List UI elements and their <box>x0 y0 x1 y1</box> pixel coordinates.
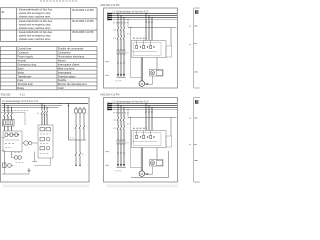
tall aux box <box>38 125 53 158</box>
text smudges <box>15 152 22 154</box>
wire bus L3 <box>2 107 59 109</box>
wire tap rail <box>1 112 25 114</box>
wire below starter <box>34 152 36 162</box>
starter left box <box>3 131 22 152</box>
sliver frame <box>194 98 200 183</box>
sliver power entry <box>195 10 198 14</box>
left drop continues <box>4 152 6 168</box>
ground symbol <box>28 168 31 173</box>
sliver marks <box>194 26 197 73</box>
svg-text:Control fuse: Control fuse <box>17 47 32 51</box>
relay coil pair <box>14 156 18 160</box>
svg-text:- Gesamtdrehzahl mit Not-Aus: - Gesamtdrehzahl mit Not-Aus <box>17 19 53 23</box>
svg-text:Fuse: Fuse <box>17 78 23 82</box>
svg-text:A1: A1 <box>82 153 84 156</box>
svg-text:09.16.2006 4:13 PM: 09.16.2006 4:13 PM <box>72 9 94 12</box>
panel A frame <box>104 8 178 88</box>
panel D frame <box>104 98 178 183</box>
svg-text:Transformer: Transformer <box>17 74 31 78</box>
wire bus L1 <box>2 103 89 105</box>
svg-text:Bornier de raccordement: Bornier de raccordement <box>58 82 87 86</box>
svg-text:- chassis avec machine arret: - chassis avec machine arret <box>17 37 50 41</box>
contactor contacts center <box>41 111 48 114</box>
svg-text:Neutre: Neutre <box>58 59 66 63</box>
svg-text:Emergency stop: Emergency stop <box>17 62 36 66</box>
right contacts <box>75 125 85 128</box>
svg-text:Motor: Motor <box>17 70 24 74</box>
page shadow left <box>3 185 89 188</box>
lower right contacts <box>75 152 81 155</box>
wire number labels row <box>3 110 29 112</box>
svg-text:- speed with emergency stop: - speed with emergency stop <box>17 34 51 38</box>
wire number labels <box>2 136 6 139</box>
panel D schematic content <box>105 100 177 176</box>
svg-text:- speed with emergency stop: - speed with emergency stop <box>17 11 51 15</box>
panel D right return wire <box>168 151 170 178</box>
inner text smudges <box>5 143 16 145</box>
svg-text:Neutral: Neutral <box>17 59 26 63</box>
svg-text:Fusible: Fusible <box>58 78 67 82</box>
svg-text:Mise a la terre: Mise a la terre <box>58 66 75 70</box>
svg-text:Terminal strip: Terminal strip <box>17 82 33 86</box>
wire drops center trio <box>42 104 47 126</box>
end dots <box>75 165 77 167</box>
sliver power entry <box>195 100 198 104</box>
coil circles <box>24 141 28 145</box>
sliver marks <box>194 118 197 161</box>
link to tall box <box>32 142 38 144</box>
svg-text:L1 Gesamtanlage mit Not-Aus 4:: L1 Gesamtanlage mit Not-Aus 4:13 <box>2 100 39 103</box>
cross-reference dots <box>189 118 191 145</box>
svg-text:- chassis avec machine arret: - chassis avec machine arret <box>17 15 50 19</box>
bottom wire <box>2 173 29 175</box>
svg-text:Earth: Earth <box>17 66 24 70</box>
page shadow right <box>106 185 178 188</box>
svg-text:-K1: -K1 <box>37 113 40 115</box>
bottom components: terminal + lamp <box>3 163 7 168</box>
svg-text:- speed with emergency stop: - speed with emergency stop <box>17 22 51 26</box>
svg-text:Power supply: Power supply <box>17 55 33 59</box>
svg-text:- Gesamtdrehzahl mit Not-Aus: - Gesamtdrehzahl mit Not-Aus <box>17 8 53 12</box>
svg-text:Fusible de commande: Fusible de commande <box>58 47 84 51</box>
svg-text:Transformateur: Transformateur <box>58 74 76 78</box>
svg-text:Alimentation electrique: Alimentation electrique <box>58 55 85 59</box>
cross-reference dots <box>189 26 191 45</box>
lower right verticals <box>76 140 80 165</box>
node junctions <box>4 103 69 108</box>
inner tie <box>5 139 20 141</box>
svg-text:- chassis avec machine arret: - chassis avec machine arret <box>17 26 50 30</box>
svg-text:Contacteur: Contacteur <box>58 51 71 55</box>
switch contacts left <box>3 113 12 116</box>
fuse block right <box>75 107 84 109</box>
mid rail right <box>69 139 87 141</box>
wire drops left trio <box>5 104 12 132</box>
svg-text:Relay: Relay <box>17 86 24 90</box>
svg-text:KM2.006: KM2.006 <box>1 94 11 97</box>
svg-text:Interrupteur: Interrupteur <box>58 70 72 74</box>
svg-text:13 14: 13 14 <box>70 138 75 140</box>
cropped header text smudge at top edge <box>40 0 78 2</box>
svg-text:09.06.2006 4:11 PM: 09.06.2006 4:11 PM <box>72 31 93 34</box>
right ladder: feeder arrow <box>68 104 70 141</box>
aux box contents <box>40 128 51 151</box>
panel D extra bottom rail wire <box>131 177 169 179</box>
svg-text:Interrupteur d'arret: Interrupteur d'arret <box>58 62 80 66</box>
right verticals <box>76 113 84 140</box>
wire bus L2 <box>2 105 63 107</box>
svg-text:KM2.006.4:13 PM: KM2.006.4:13 PM <box>100 94 119 97</box>
svg-text:Craft: Craft <box>58 86 64 90</box>
panel A schematic content <box>105 10 177 86</box>
heater block <box>5 133 17 136</box>
panel C frame <box>1 98 90 183</box>
svg-text:09.16.2006 4:13 PM: 09.16.2006 4:13 PM <box>72 20 94 23</box>
svg-text:KM2.006.4:13 PM: KM2.006.4:13 PM <box>100 4 119 7</box>
sliver frame <box>194 8 200 88</box>
fuse box F1 <box>3 120 15 127</box>
svg-text:- Gesamtdrehzahl mit Not-Aus: - Gesamtdrehzahl mit Not-Aus <box>17 30 53 34</box>
svg-text:4:13: 4:13 <box>20 94 25 97</box>
svg-text:Contactor: Contactor <box>17 51 28 55</box>
